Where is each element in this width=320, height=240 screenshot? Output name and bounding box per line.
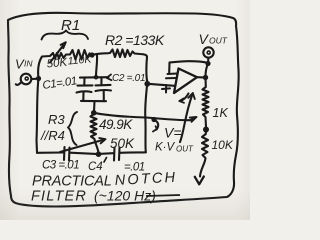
svg-text:FILTER: FILTER <box>31 189 87 205</box>
svg-text:49.9K: 49.9K <box>99 117 133 132</box>
svg-text:10K: 10K <box>212 138 234 152</box>
svg-text:C1=.01: C1=.01 <box>42 75 78 92</box>
svg-text:1K: 1K <box>213 106 229 120</box>
svg-text:V=: V= <box>164 125 182 141</box>
svg-text:OUT: OUT <box>209 36 228 46</box>
svg-text:110K: 110K <box>67 53 93 67</box>
svg-text:K·V: K·V <box>155 142 176 154</box>
svg-text:50K: 50K <box>110 136 135 151</box>
svg-text:NOTCH: NOTCH <box>114 170 177 189</box>
svg-text:C2 =.01: C2 =.01 <box>112 73 145 84</box>
svg-text:V: V <box>199 31 210 47</box>
svg-text://R4: //R4 <box>40 128 65 143</box>
svg-text:C4: C4 <box>88 161 103 173</box>
svg-text:R2 =133K: R2 =133K <box>105 32 165 48</box>
svg-text:R3: R3 <box>48 112 65 127</box>
svg-text:OUT: OUT <box>176 145 194 154</box>
svg-text:C3 =.01: C3 =.01 <box>42 160 79 172</box>
svg-text:R1: R1 <box>61 17 80 34</box>
svg-text:IN: IN <box>24 59 33 69</box>
svg-text:50K: 50K <box>46 57 69 71</box>
